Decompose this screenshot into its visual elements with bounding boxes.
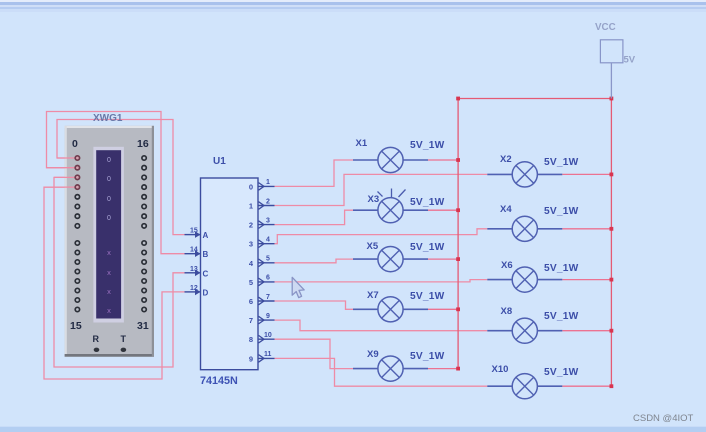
lamp X6 — [487, 260, 578, 292]
wire lamp X6 right to bus — [562, 279, 611, 281]
node X9 junction — [456, 367, 460, 371]
svg-text:2: 2 — [266, 198, 270, 205]
U1 output digits 0-9 inside box — [249, 182, 254, 363]
wire U1 out4 to lamp X5 — [275, 259, 354, 263]
wire lamp X4 right to bus — [562, 228, 611, 230]
svg-text:0: 0 — [107, 215, 111, 222]
node X10 junction — [610, 384, 614, 388]
lamp X4 — [487, 204, 578, 241]
svg-text:6: 6 — [249, 297, 253, 306]
IC U1 box — [201, 178, 259, 370]
svg-text:0: 0 — [107, 176, 111, 183]
svg-text:13: 13 — [190, 266, 198, 273]
svg-text:X4: X4 — [500, 204, 512, 215]
U1 input pin A stub — [185, 235, 201, 292]
svg-text:31: 31 — [137, 320, 149, 332]
svg-text:X6: X6 — [501, 260, 513, 271]
VCC source box — [600, 40, 623, 63]
svg-text:5V_1W: 5V_1W — [544, 311, 579, 322]
lamp X9 — [353, 349, 445, 381]
wire lamp X10 right to bus — [562, 385, 611, 387]
svg-text:11: 11 — [264, 351, 272, 358]
svg-text:1: 1 — [249, 202, 253, 211]
svg-text:9: 9 — [249, 354, 253, 363]
svg-text:6: 6 — [266, 275, 270, 282]
wire lamp X9 right to bus — [428, 368, 458, 370]
svg-text:3: 3 — [249, 240, 253, 249]
U1 input pin numbers 15 14 13 12 — [190, 228, 198, 292]
svg-text:5: 5 — [266, 256, 270, 263]
lamp X5 — [353, 241, 445, 272]
svg-text:15: 15 — [70, 320, 82, 332]
node X8 junction — [610, 329, 614, 333]
wire U1 out1 to lamp X2 — [275, 174, 488, 205]
svg-text:0: 0 — [107, 157, 111, 164]
wire XWG1 pin1 to U1 B — [47, 112, 185, 254]
svg-text:VCC: VCC — [595, 22, 616, 33]
U1 input letters A B C D — [203, 231, 209, 297]
svg-text:5V_1W: 5V_1W — [544, 157, 579, 168]
node right bus top — [610, 97, 614, 101]
wire XWG1 pin3 to U1 D — [44, 187, 185, 379]
lamp X8 — [487, 306, 578, 343]
wire top supply horizontal — [458, 98, 611, 100]
wire lamp X3 right to bus — [428, 209, 458, 211]
svg-text:5V_1W: 5V_1W — [410, 140, 445, 151]
svg-text:5V_1W: 5V_1W — [544, 367, 579, 378]
svg-text:5: 5 — [249, 278, 253, 287]
lamp X7 — [353, 290, 445, 322]
lamp X3 — [353, 189, 445, 223]
node left bus top — [456, 97, 460, 101]
svg-text:U1: U1 — [213, 156, 226, 167]
XWG1 left terminal column — [75, 156, 79, 312]
svg-text:8: 8 — [249, 335, 253, 344]
mouse cursor — [292, 277, 304, 297]
svg-text:10: 10 — [264, 332, 272, 339]
svg-text:XWG1: XWG1 — [93, 113, 123, 124]
node X6 junction — [610, 278, 614, 282]
svg-text:x: x — [107, 306, 111, 315]
node X5 junction — [456, 257, 460, 261]
node X1 junction — [456, 158, 460, 162]
svg-text:2: 2 — [249, 221, 253, 230]
XWG1 display digits — [107, 157, 111, 222]
svg-text:X10: X10 — [492, 364, 509, 375]
XWG1 R T terminals — [94, 348, 100, 352]
lamp X10 — [487, 364, 578, 399]
word generator XWG1 body — [65, 126, 154, 357]
U1 output arrows — [259, 183, 265, 363]
svg-text:D: D — [203, 288, 209, 297]
XWG1 right terminal column — [142, 156, 146, 312]
wire U1 out0 to lamp X1 — [275, 160, 354, 186]
wire U1 out2 to lamp X3 — [275, 210, 354, 224]
svg-text:0: 0 — [249, 182, 253, 191]
wire left supply bus vertical — [457, 99, 459, 369]
svg-text:15: 15 — [190, 228, 198, 235]
wire XWG1 pin0 to U1 A — [57, 120, 185, 235]
node X7 junction — [456, 307, 460, 311]
wire XWG1 pin2 to U1 C — [54, 177, 185, 367]
svg-text:5V: 5V — [624, 55, 636, 66]
svg-text:x: x — [107, 248, 111, 257]
svg-text:X9: X9 — [367, 349, 379, 360]
svg-text:C: C — [203, 269, 209, 278]
XWG1 R T labels — [93, 334, 127, 344]
wire U1 out7 to lamp X8 — [275, 320, 488, 331]
svg-text:14: 14 — [190, 247, 198, 254]
svg-text:5V_1W: 5V_1W — [544, 206, 579, 217]
svg-text:12: 12 — [190, 285, 198, 292]
svg-text:x: x — [107, 287, 111, 296]
wire U1 out6 to lamp X7 — [275, 301, 354, 309]
svg-text:16: 16 — [137, 138, 149, 150]
VCC lead wire — [610, 63, 612, 99]
svg-text:5V_1W: 5V_1W — [544, 263, 579, 274]
U1 output pin numbers — [264, 179, 272, 358]
node X2 junction — [610, 173, 614, 177]
wire lamp X7 right to bus — [428, 308, 458, 310]
svg-text:7: 7 — [249, 316, 253, 325]
svg-text:X2: X2 — [500, 154, 512, 165]
svg-text:A: A — [203, 231, 209, 240]
wire lamp X1 right to bus — [428, 159, 458, 161]
wire U1 out9 to lamp X10 — [275, 358, 488, 386]
wire right supply bus vertical — [610, 99, 612, 387]
svg-text:R: R — [93, 334, 100, 344]
svg-text:X8: X8 — [501, 306, 513, 317]
wire lamp X8 right to bus — [562, 330, 611, 332]
svg-text:CSDN @4IOT: CSDN @4IOT — [633, 413, 694, 424]
svg-text:0: 0 — [72, 138, 78, 150]
wire U1 out5 to lamp X6 — [275, 280, 488, 282]
lamp X2 — [487, 154, 578, 187]
wire U1 out8 to lamp X9 — [275, 339, 354, 368]
svg-text:X7: X7 — [367, 290, 379, 301]
svg-text:3: 3 — [266, 217, 270, 224]
node X3 junction — [456, 208, 460, 212]
svg-text:5V_1W: 5V_1W — [410, 242, 445, 253]
svg-text:X3: X3 — [368, 194, 380, 205]
U1 input arrows — [195, 231, 201, 295]
svg-text:5V_1W: 5V_1W — [410, 351, 445, 362]
svg-text:7: 7 — [266, 294, 270, 301]
XWG1 display panel — [93, 147, 124, 323]
svg-text:74145N: 74145N — [200, 375, 238, 387]
svg-text:X5: X5 — [367, 241, 379, 252]
svg-text:9: 9 — [266, 313, 270, 320]
svg-text:T: T — [121, 334, 127, 344]
wire stubs XWG1 pins 0-3 — [44, 158, 77, 187]
svg-text:5V_1W: 5V_1W — [410, 291, 445, 302]
svg-text:4: 4 — [266, 237, 270, 244]
XWG1 corner numbers — [70, 138, 149, 332]
wire U1 out3 to lamp X4 — [275, 229, 488, 244]
wire lamp X5 right to bus — [428, 258, 458, 260]
svg-text:1: 1 — [266, 179, 270, 186]
svg-text:X1: X1 — [356, 138, 368, 149]
lamp X1 — [353, 138, 445, 173]
node X4 junction — [610, 227, 614, 231]
svg-text:0: 0 — [107, 196, 111, 203]
svg-text:x: x — [107, 268, 111, 277]
wire lamp X2 right to bus — [562, 173, 611, 175]
U1 output stubs — [258, 186, 275, 358]
svg-text:5V_1W: 5V_1W — [410, 197, 445, 208]
svg-text:B: B — [203, 250, 209, 259]
